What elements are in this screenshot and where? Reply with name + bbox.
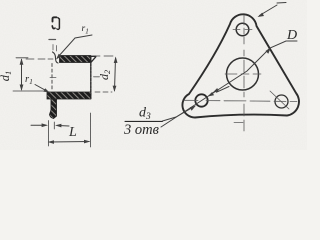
top corner radius leader arrow (258, 3, 287, 18)
left view: tube bottom wall (hatched section) (47, 92, 91, 99)
left view: fillet r1 at flange/tube top junction (53, 52, 59, 63)
dimension L: dimension line with arrows (48, 140, 91, 144)
right view: bottom-right small hole (275, 95, 288, 108)
D leader line through plate with arrows (161, 41, 297, 127)
right view: big center hole D (227, 58, 259, 90)
left view: tube inner left face (51, 64, 53, 92)
left view: flange lower stub (hatched, broken end) (50, 99, 57, 119)
bottom small dimension (flange thickness): extension lines (49, 121, 55, 147)
left view: tube right end edge (90, 56, 92, 99)
bottom small dimension: arrows (31, 123, 69, 127)
top hole vertical centerline (243, 15, 245, 44)
dimension d1 (left): extension lines (13, 58, 53, 91)
left view: flange plate faint mid section (break gap marks) (49, 40, 57, 52)
dimension d2 (right): extension dashes (93, 56, 113, 92)
dimension d1 (left): dimension line with arrows (20, 58, 24, 91)
plate vertical centerline below (234, 104, 244, 131)
left view: flange plate top stub (broken) (52, 17, 59, 29)
right view: bottom-left small hole (195, 94, 207, 106)
left view: tube top wall (hatched section) (60, 56, 91, 63)
bottom holes horizontal centerline (184, 100, 297, 101)
d3 leader with arrow (163, 106, 197, 122)
right view: rounded triangular plate outline (182, 14, 299, 117)
big hole vertical centerline (243, 50, 245, 97)
left view: tube axis centerline (50, 76, 100, 79)
dimension d2 (right): dimension line with arrows (113, 57, 118, 93)
right view: top small hole (236, 23, 249, 36)
top hole horizontal centerline (233, 28, 252, 30)
left view: top bar right end step (91, 56, 96, 62)
bottom-right hole diagonal centerline (270, 91, 289, 109)
big hole horizontal centerline (225, 73, 261, 75)
dimension L: right extension line (90, 113, 92, 147)
